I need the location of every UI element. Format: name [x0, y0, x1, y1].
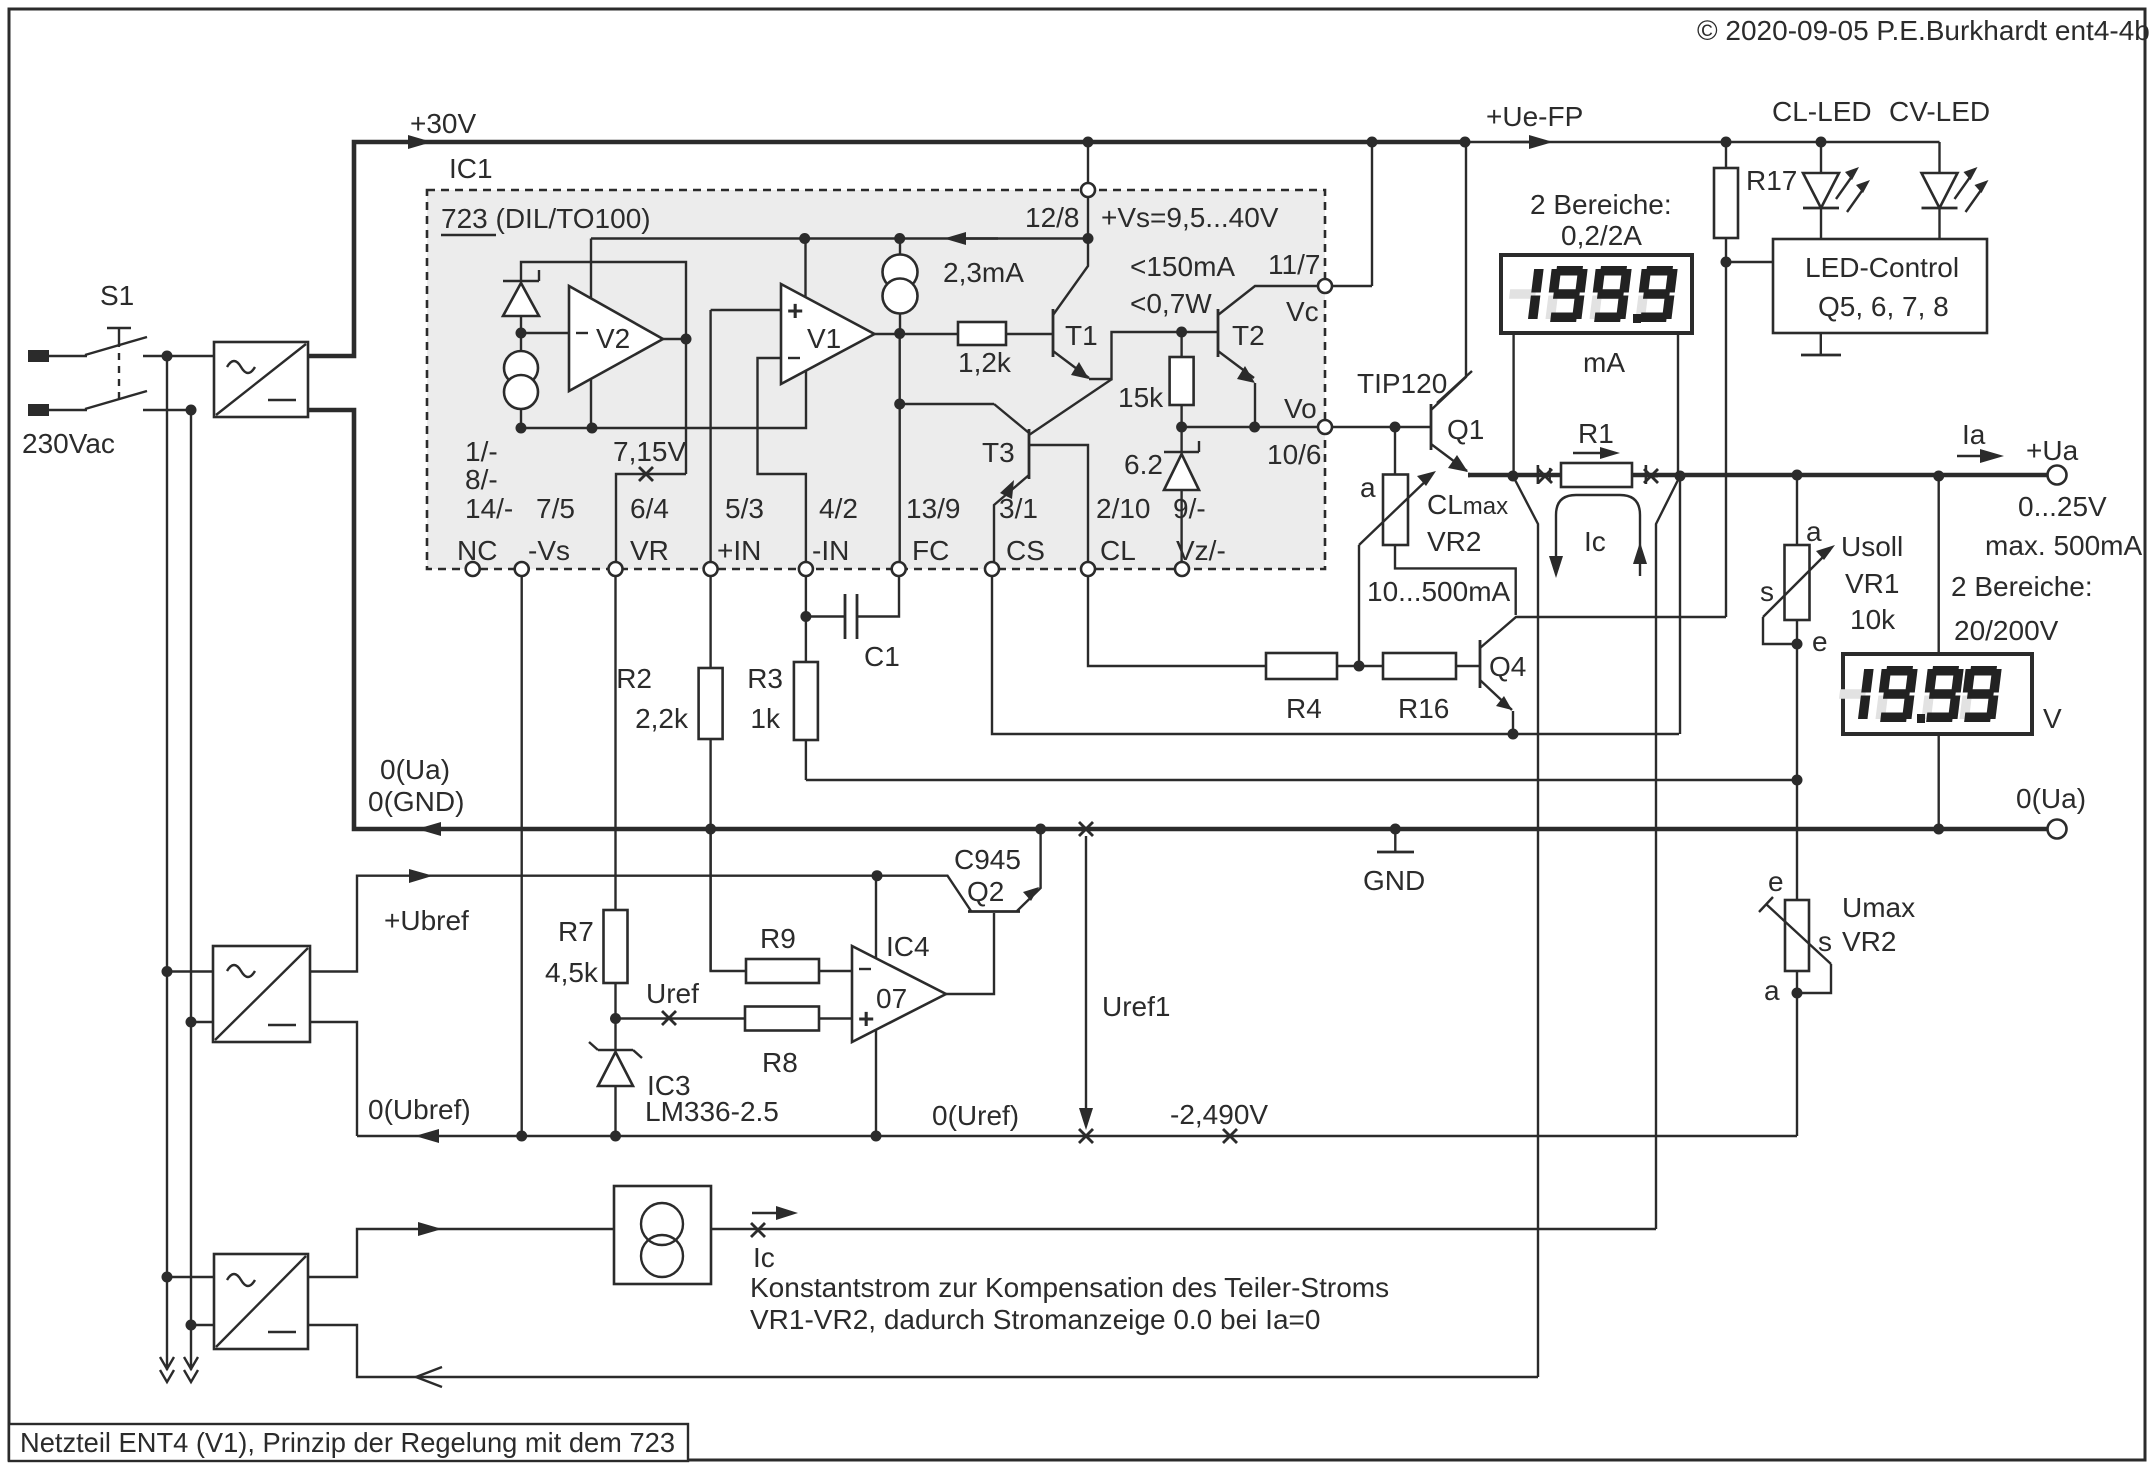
svg-text:0(Ua): 0(Ua)	[380, 754, 450, 785]
svg-text:+IN: +IN	[717, 535, 761, 566]
svg-text:s: s	[1818, 926, 1832, 957]
svg-text:R7: R7	[558, 916, 594, 947]
svg-text:4,5k: 4,5k	[545, 957, 599, 988]
svg-text:6.2: 6.2	[1124, 449, 1163, 480]
svg-text:07: 07	[876, 983, 907, 1014]
svg-text:R3: R3	[747, 663, 783, 694]
svg-text:10...500mA: 10...500mA	[1367, 576, 1511, 607]
svg-text:Q2: Q2	[967, 876, 1004, 907]
svg-text:C1: C1	[864, 641, 900, 672]
svg-text:230Vac: 230Vac	[22, 428, 115, 459]
svg-text:a: a	[1806, 516, 1822, 547]
svg-text:2 Bereiche:: 2 Bereiche:	[1951, 571, 2093, 602]
svg-text:0(Ubref): 0(Ubref)	[368, 1094, 471, 1125]
svg-text:mA: mA	[1583, 347, 1625, 378]
svg-text:Vc: Vc	[1286, 296, 1319, 327]
svg-text:VR1-VR2, dadurch Stromanzeige: VR1-VR2, dadurch Stromanzeige 0.0 bei Ia…	[750, 1304, 1320, 1335]
svg-text:+: +	[858, 1003, 874, 1034]
svg-text:LM336-2.5: LM336-2.5	[645, 1096, 779, 1127]
svg-text:+Ua: +Ua	[2026, 435, 2079, 466]
svg-text:0(Ua): 0(Ua)	[2016, 783, 2086, 814]
svg-text:0(Uref): 0(Uref)	[932, 1100, 1019, 1131]
svg-text:12/8: 12/8	[1025, 202, 1080, 233]
svg-text:-2,490V: -2,490V	[1170, 1099, 1268, 1130]
svg-text:14/-: 14/-	[465, 493, 513, 524]
svg-text:max. 500mA: max. 500mA	[1985, 530, 2142, 561]
svg-text:LED-Control: LED-Control	[1805, 252, 1959, 283]
svg-text:6/4: 6/4	[630, 493, 669, 524]
svg-text:I+: I+	[1534, 459, 1558, 490]
svg-text:R2: R2	[616, 663, 652, 694]
svg-text:11/7: 11/7	[1268, 249, 1320, 280]
svg-text:<150mA: <150mA	[1130, 251, 1235, 282]
svg-text:2,3mA: 2,3mA	[943, 257, 1024, 288]
svg-text:5/3: 5/3	[725, 493, 764, 524]
svg-text:s: s	[1760, 576, 1774, 607]
svg-text:VR2: VR2	[1842, 926, 1896, 957]
svg-text:T2: T2	[1232, 320, 1265, 351]
svg-text:Q5, 6, 7, 8: Q5, 6, 7, 8	[1818, 291, 1949, 322]
svg-text:Q1: Q1	[1447, 414, 1484, 445]
svg-text:C945: C945	[954, 844, 1021, 875]
svg-text:FC: FC	[912, 535, 949, 566]
svg-text:a: a	[1360, 472, 1376, 503]
svg-text:R4: R4	[1286, 693, 1322, 724]
svg-text:4/2: 4/2	[819, 493, 858, 524]
svg-text:Vo: Vo	[1284, 393, 1317, 424]
svg-text:7,15V: 7,15V	[613, 436, 686, 467]
svg-text:CS: CS	[1006, 535, 1045, 566]
svg-text:-Vs: -Vs	[528, 535, 570, 566]
svg-text:S1: S1	[100, 280, 134, 311]
svg-text:R9: R9	[760, 923, 796, 954]
svg-text:V1: V1	[807, 323, 841, 354]
svg-text:13/9: 13/9	[906, 493, 961, 524]
svg-text:© 2020-09-05 P.E.Burkhardt ent: © 2020-09-05 P.E.Burkhardt ent4-4b	[1697, 15, 2150, 46]
svg-text:TIP120: TIP120	[1357, 368, 1447, 399]
svg-text:8/-: 8/-	[465, 464, 498, 495]
svg-text:R16: R16	[1398, 693, 1449, 724]
svg-text:10k: 10k	[1850, 604, 1896, 635]
svg-text:GND: GND	[1363, 865, 1425, 896]
svg-text:T1: T1	[1065, 320, 1098, 351]
svg-text:Ia: Ia	[1962, 419, 1986, 450]
svg-text:0...25V: 0...25V	[2018, 491, 2107, 522]
svg-text:e: e	[1812, 626, 1828, 657]
svg-text:V: V	[2043, 703, 2062, 734]
svg-text:Ic: Ic	[1584, 526, 1606, 557]
svg-text:I-: I-	[1642, 459, 1659, 490]
svg-text:CL: CL	[1100, 535, 1136, 566]
svg-text:3/1: 3/1	[999, 493, 1038, 524]
svg-text:<0,7W: <0,7W	[1130, 288, 1212, 319]
svg-text:Konstantstrom zur Kompensation: Konstantstrom zur Kompensation des Teile…	[750, 1272, 1389, 1303]
svg-text:0,2/2A: 0,2/2A	[1561, 220, 1642, 251]
svg-text:7/5: 7/5	[536, 493, 575, 524]
svg-text:723 (DIL/TO100): 723 (DIL/TO100)	[441, 203, 651, 234]
svg-text:2 Bereiche:: 2 Bereiche:	[1530, 189, 1672, 220]
svg-text:CL-LED: CL-LED	[1772, 96, 1872, 127]
svg-text:Usoll: Usoll	[1841, 531, 1903, 562]
svg-text:+30V: +30V	[410, 108, 476, 139]
svg-text:+Ue-FP: +Ue-FP	[1486, 101, 1583, 132]
svg-text:VR1: VR1	[1845, 568, 1899, 599]
svg-text:R8: R8	[762, 1047, 798, 1078]
svg-text:IC1: IC1	[449, 153, 493, 184]
svg-text:Q4: Q4	[1489, 651, 1526, 682]
svg-text:15k: 15k	[1118, 382, 1164, 413]
svg-text:+Vs=9,5...40V: +Vs=9,5...40V	[1101, 202, 1279, 233]
svg-text:Uref: Uref	[646, 978, 699, 1009]
svg-text:Uref1: Uref1	[1102, 991, 1170, 1022]
svg-text:T3: T3	[982, 437, 1015, 468]
svg-text:9/-: 9/-	[1173, 493, 1206, 524]
svg-text:VR: VR	[630, 535, 669, 566]
svg-text:20/200V: 20/200V	[1954, 615, 2059, 646]
svg-text:1,2k: 1,2k	[958, 347, 1012, 378]
svg-text:R17: R17	[1746, 165, 1797, 196]
svg-text:VR2: VR2	[1427, 526, 1481, 557]
svg-text:+: +	[787, 295, 803, 326]
svg-text:1/-: 1/-	[465, 436, 498, 467]
svg-text:Netzteil ENT4 (V1), Prinzip de: Netzteil ENT4 (V1), Prinzip der Regelung…	[20, 1427, 675, 1458]
svg-text:CLmax: CLmax	[1427, 489, 1508, 520]
svg-text:e: e	[1768, 866, 1784, 897]
svg-text:2/10: 2/10	[1096, 493, 1151, 524]
svg-text:R1: R1	[1578, 418, 1614, 449]
svg-text:-IN: -IN	[812, 535, 849, 566]
svg-text:10/6: 10/6	[1267, 439, 1322, 470]
svg-text:V2: V2	[596, 323, 630, 354]
svg-text:+Ubref: +Ubref	[384, 905, 469, 936]
svg-text:a: a	[1764, 975, 1780, 1006]
svg-text:NC: NC	[457, 535, 497, 566]
svg-text:Umax: Umax	[1842, 892, 1915, 923]
svg-text:CV-LED: CV-LED	[1889, 96, 1990, 127]
svg-text:1k: 1k	[750, 703, 781, 734]
svg-text:Ic: Ic	[753, 1242, 775, 1273]
svg-text:IC4: IC4	[886, 931, 930, 962]
svg-text:0(GND): 0(GND)	[368, 786, 464, 817]
svg-text:2,2k: 2,2k	[635, 703, 689, 734]
